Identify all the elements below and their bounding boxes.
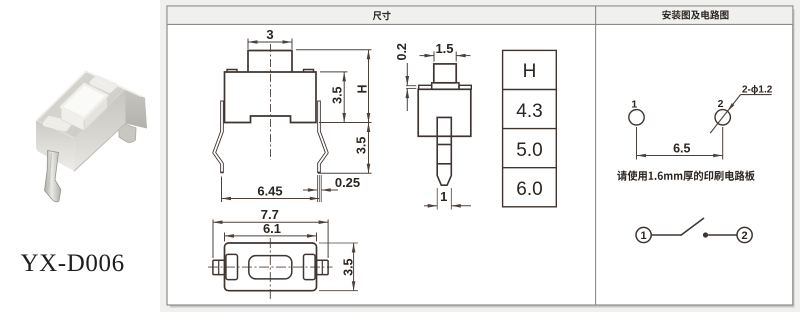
svg-text:YX-D006: YX-D006 [21, 250, 125, 277]
product photo: front leg [45, 151, 61, 202]
side view: body [418, 89, 471, 136]
dimension 3.5 (bottom view) [319, 242, 358, 244]
svg-text:6.1: 6.1 [263, 221, 281, 236]
mounting hole 2 [715, 110, 730, 125]
bottom view: center button recess [249, 256, 292, 279]
PCB note text [617, 170, 755, 180]
product photo: button left side [61, 107, 84, 131]
circuit: terminal 1 [636, 227, 651, 242]
spec table body [167, 6, 793, 305]
bottom view: right pad [304, 254, 316, 279]
svg-text:3.5: 3.5 [331, 86, 345, 103]
leader line 2-phi1.2 [710, 95, 740, 134]
svg-text:4.3: 4.3 [516, 101, 542, 122]
product photo: front face bottom edge [74, 123, 126, 171]
dimension 1.5 (knob width) [433, 52, 435, 62]
dimension 7.7 [212, 220, 214, 259]
front view: left top tab [227, 70, 237, 73]
product photo: left end face [36, 120, 75, 171]
svg-text:1: 1 [631, 98, 637, 110]
leg tip extension line [318, 172, 372, 174]
circuit: wire to terminal 2 [708, 234, 737, 236]
front view: knob [248, 51, 292, 73]
svg-text:0.25: 0.25 [335, 175, 360, 190]
front view: centerline [270, 44, 272, 160]
dimension 6.45 (leg span) [221, 177, 223, 203]
dimension 1 (pin width) [436, 188, 438, 210]
svg-text:1: 1 [641, 230, 647, 242]
svg-text:2: 2 [718, 98, 724, 110]
H value table [503, 50, 557, 206]
dimension 3.5 (leg length) [368, 123, 370, 174]
side view: center pin [437, 117, 451, 185]
front view: left leg [214, 101, 222, 174]
grey panel background [160, 0, 800, 312]
dimension 3.5 (body height) [320, 71, 348, 73]
product photo: button top [61, 84, 107, 118]
svg-text:2: 2 [742, 230, 748, 242]
svg-text:6.0: 6.0 [516, 179, 542, 200]
product photo: body top face [37, 72, 125, 138]
bottom view: left pad [226, 254, 238, 279]
svg-text:2-ϕ1.2: 2-ϕ1.2 [742, 85, 773, 96]
column divider [595, 6, 597, 305]
dimension 3 (knob width) [247, 39, 249, 50]
svg-text:3: 3 [266, 27, 273, 42]
svg-text:0.2: 0.2 [395, 43, 409, 60]
dimension 0.25 (leg thickness) [303, 189, 317, 191]
product photo: button right side [84, 95, 107, 130]
dimension H (total height) [296, 49, 372, 51]
product photo: end cap back [93, 78, 115, 90]
side view: left ear [419, 85, 432, 89]
header label: 尺寸 [373, 11, 391, 20]
svg-text:7.7: 7.7 [261, 207, 279, 222]
bottom view: right lead [317, 260, 329, 274]
circuit: wire from terminal 1 [651, 234, 681, 236]
svg-text:1: 1 [440, 189, 447, 204]
mounting hole 1 [629, 110, 644, 125]
spec table shadow [170, 9, 794, 307]
svg-text:1.5: 1.5 [435, 41, 453, 56]
header label: 安装图及电路图 [662, 10, 728, 20]
product photo: front leg crease [49, 153, 52, 188]
product photo: front face [74, 89, 126, 171]
product photo: right end face [125, 89, 147, 129]
product photo: right foot [119, 122, 136, 142]
product photo: end cap left [46, 119, 70, 129]
svg-text:6.45: 6.45 [257, 184, 282, 199]
bottom view: left lead [213, 260, 225, 274]
svg-text:5.0: 5.0 [516, 140, 542, 161]
side view: knob [434, 64, 456, 83]
dimension 6.5 (hole spacing) [636, 127, 638, 160]
svg-text:H: H [523, 61, 537, 82]
circuit: contact dot [703, 232, 708, 237]
product photo: top edge highlight [37, 71, 142, 120]
svg-text:3.5: 3.5 [342, 258, 356, 275]
front view: body outline [225, 72, 317, 123]
side view: right ear [459, 85, 471, 89]
circuit: switch blade [681, 218, 705, 236]
dimension 6.1 [224, 233, 226, 242]
dimension 0.2 [406, 85, 416, 87]
circuit: terminal 2 [737, 227, 752, 242]
bottom view: body outline [225, 243, 317, 291]
front view: right top tab [304, 70, 314, 73]
seating plane extension line [319, 122, 372, 124]
svg-text:3.5: 3.5 [355, 137, 369, 154]
svg-text:H: H [355, 84, 369, 93]
side view: collar [432, 83, 459, 90]
table header row [168, 7, 793, 25]
front view: right leg [319, 101, 327, 174]
bottom view: centerlines [208, 266, 333, 268]
svg-text:6.5: 6.5 [673, 141, 690, 155]
